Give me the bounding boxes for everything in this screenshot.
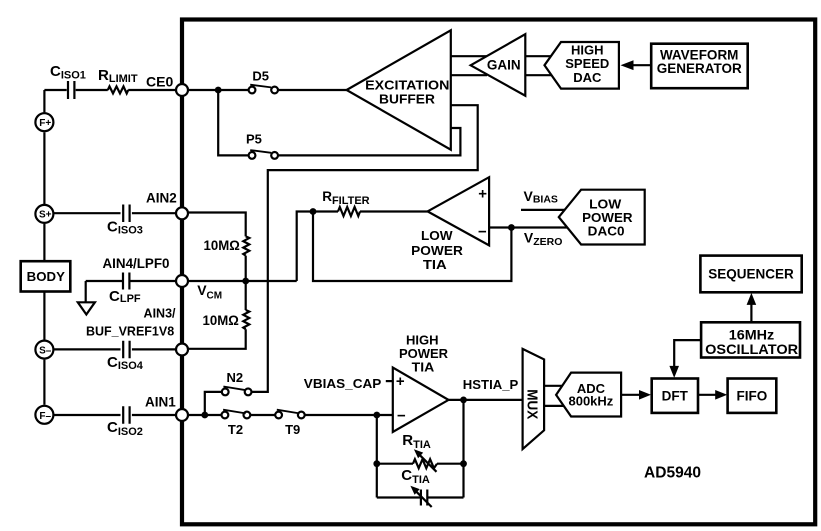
arrow DFT to FIFO (698, 394, 716, 396)
resistor R_LIMIT (108, 86, 128, 93)
wire CE0 line left (44, 89, 175, 91)
svg-text:AIN3/: AIN3/ (144, 306, 176, 320)
svg-text:+: + (478, 186, 487, 203)
node HSTIA_P output junction (460, 397, 467, 404)
wire MUX to ADC lower (544, 405, 565, 407)
electrode F+ stem wire (43, 90, 45, 112)
wire GAIN to HIGH SPEED DAC lower (526, 74, 554, 76)
svg-text:DAC: DAC (573, 70, 602, 85)
capacitor C_LPF (123, 273, 129, 290)
wire oscillator to DFT arrow (674, 340, 701, 366)
svg-text:S+: S+ (39, 210, 52, 221)
electrode S+ (35, 205, 53, 223)
node VZERO junction (508, 224, 515, 231)
op-amp GAIN (471, 34, 526, 95)
wire AIN3 line left (54, 348, 176, 350)
electrode F- (35, 406, 53, 424)
wire S+ to BODY (43, 224, 45, 261)
wire AIN2 to 10M divider (188, 213, 246, 349)
svg-text:GENERATOR: GENERATOR (657, 61, 742, 76)
svg-text:BODY: BODY (27, 269, 66, 284)
svg-text:10MΩ: 10MΩ (204, 238, 240, 253)
svg-text:AD5940: AD5940 (644, 465, 701, 482)
svg-text:AIN1: AIN1 (145, 394, 176, 409)
svg-text:SEQUENCER: SEQUENCER (708, 267, 794, 282)
wire HPTIA feedback left vertical (376, 415, 378, 498)
wire buffer to GAIN lower (451, 74, 487, 76)
svg-text:CE0: CE0 (146, 73, 173, 89)
svg-text:TIA: TIA (412, 359, 435, 374)
svg-text:S–: S– (39, 345, 52, 356)
pin AIN1 (176, 409, 188, 421)
svg-text:10MΩ: 10MΩ (203, 313, 239, 328)
svg-text:GAIN: GAIN (487, 58, 521, 73)
resistor 10M upper (243, 236, 249, 255)
resistor 10M lower (243, 310, 249, 329)
op-amp LOW POWER TIA (428, 177, 490, 245)
wire AIN2 line left (54, 212, 176, 214)
svg-text:VBIAS_CAP: VBIAS_CAP (304, 376, 382, 391)
svg-text:N2: N2 (227, 370, 244, 385)
wire WAVEFORM GENERATOR to DAC arrow (632, 64, 652, 66)
switch N2 (222, 387, 252, 396)
FIFO box (728, 379, 777, 413)
svg-text:EXCITATION: EXCITATION (365, 79, 449, 93)
wire GAIN to HIGH SPEED DAC upper (526, 55, 554, 57)
BODY box (21, 261, 71, 291)
node RFILTER junction (310, 208, 317, 215)
wire HPTIA output to MUX (449, 399, 523, 401)
switch P5 (249, 150, 278, 159)
wire LPTIA output to VZERO node (489, 226, 511, 228)
wire VCM up to RFILTER node (297, 212, 313, 282)
ground (78, 302, 95, 314)
switch T9 (275, 410, 304, 419)
arrow through R_TIA (420, 455, 437, 472)
wire CE0 to D5 (188, 89, 248, 91)
pin CE0 (176, 84, 188, 96)
capacitor C_ISO2 (123, 406, 129, 424)
svg-text:−: − (478, 224, 487, 241)
svg-text:F+: F+ (39, 118, 51, 129)
svg-text:800kHz: 800kHz (568, 394, 613, 409)
svg-text:OSCILLATOR: OSCILLATOR (705, 341, 798, 357)
svg-text:F–: F– (39, 411, 51, 422)
svg-text:AIN2: AIN2 (146, 191, 177, 206)
wire AIN4/LPF0 line (86, 280, 176, 282)
svg-text:−: − (397, 408, 406, 425)
node HPTIA inverting input junction (373, 412, 380, 419)
node VCM junction (242, 278, 249, 285)
svg-text:FIFO: FIFO (737, 388, 768, 403)
wire buffer to GAIN upper (451, 55, 487, 57)
resistor R_FILTER (313, 210, 428, 212)
ADC pentagon (556, 373, 621, 417)
resistor R_TIA (377, 463, 464, 465)
wire P5 branch from CE0 node (218, 90, 248, 155)
wire VBIAS_CAP stub (386, 380, 393, 382)
wire VCM (188, 280, 296, 282)
MUX (523, 349, 545, 449)
capacitor C_ISO1 (68, 81, 74, 99)
svg-text:TIA: TIA (423, 257, 448, 272)
svg-text:BUF_VREF1V8: BUF_VREF1V8 (86, 324, 174, 338)
wire F+ to S+ (43, 132, 45, 204)
svg-text:BUFFER: BUFFER (379, 93, 435, 107)
SEQUENCER box (700, 256, 801, 293)
svg-text:MUX: MUX (524, 389, 541, 419)
svg-text:DFT: DFT (662, 388, 689, 403)
switch T2 (222, 410, 251, 419)
op-amp HIGH POWER TIA (393, 368, 449, 433)
AD5940 chip boundary box (182, 20, 815, 525)
svg-text:T2: T2 (228, 422, 243, 437)
svg-text:HSTIA_P: HSTIA_P (463, 377, 519, 392)
capacitor C_TIA (421, 490, 427, 506)
node RTIA right junction (460, 460, 467, 467)
node RTIA left junction (373, 460, 380, 467)
wire AIN1 row (188, 414, 392, 416)
capacitor C_ISO4 (123, 341, 129, 359)
pin AIN3 (176, 344, 188, 356)
pin AIN2 (176, 207, 188, 219)
wire VBIAS from LOW POWER DAC0 (521, 209, 565, 211)
svg-text:D5: D5 (252, 69, 269, 84)
WAVEFORM GENERATOR box (651, 44, 748, 88)
wire AIN1 line left (54, 414, 176, 416)
wire D5 to buffer (279, 89, 347, 91)
wire P5 to buffer feedback (279, 128, 461, 155)
wire N2 to AIN1 node (205, 392, 222, 415)
pin AIN4/VCM (176, 275, 188, 287)
electrode F+ (35, 113, 53, 131)
svg-text:+: + (396, 373, 405, 390)
wire C_TIA bottom branch (377, 400, 464, 498)
wire RFILTER node down and TIA feedback (313, 212, 511, 282)
wire buffer feedback to N2 (252, 105, 478, 392)
op-amp excitation buffer (347, 30, 451, 149)
svg-text:DAC0: DAC0 (588, 224, 625, 239)
node CE0 junction (215, 87, 222, 94)
arrow through C_TIA (416, 491, 432, 507)
electrode S- (35, 341, 53, 359)
wire VZERO to LOW POWER DAC0 (511, 226, 567, 228)
16MHz oscillator box (701, 322, 800, 357)
LOW POWER DAC0 pentagon (559, 190, 645, 245)
node AIN1 junction (201, 412, 208, 419)
arrow ADC to DFT (621, 394, 640, 396)
wire S- to F- (43, 360, 45, 405)
capacitor C_ISO3 (123, 205, 129, 223)
DFT box (652, 379, 698, 413)
arrow oscillator to SEQUENCER (750, 305, 752, 323)
svg-text:P5: P5 (246, 132, 262, 147)
switch D5 (249, 85, 278, 94)
svg-text:AIN4/LPF0: AIN4/LPF0 (103, 256, 170, 271)
wire MUX to ADC upper (544, 385, 565, 387)
wire C_LPF to ground (85, 281, 87, 302)
svg-text:LOW: LOW (421, 228, 453, 243)
wire BODY to S- (43, 292, 45, 340)
HIGH SPEED DAC pentagon (545, 42, 619, 89)
svg-text:T9: T9 (285, 422, 300, 437)
